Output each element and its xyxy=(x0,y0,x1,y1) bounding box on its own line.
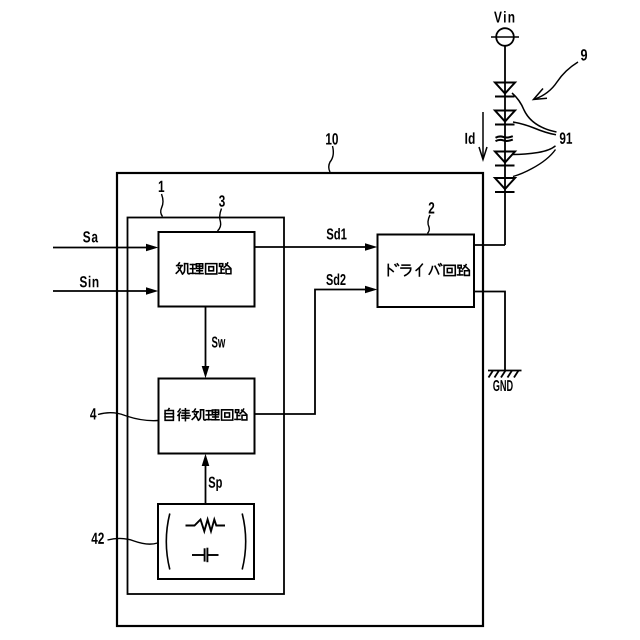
wire Sd1 with arrowhead xyxy=(255,246,367,248)
inner box 1 xyxy=(128,218,285,595)
text ドライバ回路 xyxy=(388,264,469,276)
wire Sa with arrowhead xyxy=(53,247,147,249)
leader line for 4 xyxy=(98,413,158,421)
ground symbol xyxy=(488,371,522,378)
label 9 xyxy=(581,49,587,61)
label 3 xyxy=(219,195,225,207)
label Sw xyxy=(212,336,226,347)
wire break mark xyxy=(496,136,513,141)
label 91 xyxy=(560,132,572,144)
label Sd2 xyxy=(326,274,345,286)
label 2 xyxy=(429,202,435,213)
label 42 xyxy=(91,533,103,544)
LED D1 xyxy=(495,83,515,97)
leader curve 91 to D3 xyxy=(513,146,556,155)
block 42: RC network xyxy=(158,504,254,579)
leader line for 1 xyxy=(161,194,163,217)
leader line for 42 xyxy=(108,538,158,544)
arrow from 9 to LED string xyxy=(535,62,578,99)
label Vin xyxy=(494,11,514,22)
wire Sin with arrowhead xyxy=(53,290,147,292)
capacitor symbol xyxy=(192,548,219,563)
text 自律処理回路 xyxy=(165,409,247,421)
label Id xyxy=(465,132,474,144)
leader line for 10 xyxy=(329,146,334,172)
input terminal circle Vin xyxy=(496,28,514,46)
label 1 xyxy=(159,181,164,192)
right parenthesis xyxy=(242,514,246,570)
label 4 xyxy=(90,408,96,419)
leader curve 91 to D4 xyxy=(513,150,556,177)
LED D4 xyxy=(495,178,515,192)
text 処理回路 xyxy=(176,263,231,274)
leader line for 2 xyxy=(428,215,431,234)
LED D2 xyxy=(495,111,515,125)
block 2: ドライバ回路 (driver circuit) xyxy=(378,235,475,308)
LED string wire xyxy=(504,46,506,245)
block 4: 自律処理回路 (autonomous processing circuit) xyxy=(159,379,255,454)
leader curve 91 to D2 xyxy=(513,122,556,135)
label Sa xyxy=(83,231,98,242)
wire Sp with arrowhead xyxy=(205,465,207,504)
wire driver output top to LED string xyxy=(474,244,505,246)
label Sin xyxy=(80,276,99,288)
wire Sw with arrowhead xyxy=(205,307,207,368)
leader curve 91 to D1 xyxy=(512,93,557,132)
block 3: 処理回路 (processing circuit) xyxy=(159,232,255,307)
resistor symbol xyxy=(186,520,226,532)
label Sp xyxy=(209,477,222,491)
label Sd1 xyxy=(327,228,347,240)
wire driver output bottom to GND xyxy=(474,292,505,371)
label GND xyxy=(493,380,513,391)
leader line for 3 xyxy=(218,209,222,232)
LED D3 xyxy=(495,152,515,166)
current arrow Id xyxy=(482,112,484,158)
label 10 xyxy=(326,133,338,145)
left parenthesis xyxy=(166,514,170,570)
wire Sd2 with arrowhead xyxy=(255,290,367,415)
outer box 10 xyxy=(117,173,483,626)
